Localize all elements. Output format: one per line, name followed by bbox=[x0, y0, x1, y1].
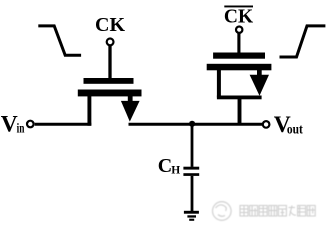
svg-text:out: out bbox=[287, 122, 303, 137]
transistor M2 (dummy switch) gate bar bbox=[213, 53, 265, 59]
terminal circle Vin bbox=[27, 121, 34, 128]
wire: M1 source leg bbox=[87, 96, 91, 126]
wire: M2 left leg bbox=[217, 70, 221, 98]
terminal circle Vout bbox=[263, 121, 270, 128]
watermark logo bbox=[213, 202, 232, 221]
svg-text:C: C bbox=[158, 155, 172, 177]
wire: output line (M1 drain to Vout) bbox=[129, 123, 263, 126]
terminal circle on CK-bar gate bbox=[236, 27, 242, 33]
wire: M2 tail to output node bbox=[238, 99, 242, 125]
watermark text (faint) bbox=[240, 206, 315, 217]
wire: gate lead M2 bbox=[237, 33, 240, 53]
falling clock waveform (left) bbox=[38, 26, 81, 55]
svg-text:in: in bbox=[17, 122, 25, 137]
transistor M2 channel bar bbox=[207, 64, 272, 71]
svg-text:CK: CK bbox=[95, 14, 125, 36]
transistor M1 drain arrow bbox=[121, 96, 140, 122]
terminal circle on CK gate bbox=[107, 39, 114, 46]
capacitor CH bottom plate bbox=[183, 173, 199, 176]
node junction dot bbox=[189, 121, 195, 127]
ground symbol bbox=[184, 211, 199, 221]
wire: gate lead M1 bbox=[108, 45, 111, 78]
wire: capacitor to ground bbox=[191, 176, 194, 211]
wire: M2 shorting bar (source-drain tied) bbox=[217, 96, 262, 100]
wire: Vin to M1 source bbox=[35, 123, 92, 126]
overline of CK-bar bbox=[224, 6, 253, 8]
transistor M1 gate bar bbox=[84, 78, 134, 84]
capacitor CH top plate bbox=[183, 167, 199, 170]
svg-text:H: H bbox=[171, 164, 180, 176]
transistor M2 arrow (right leg) bbox=[250, 70, 269, 96]
transistor M1 channel bar bbox=[78, 90, 142, 97]
wire: node to capacitor bbox=[191, 124, 194, 167]
svg-text:V: V bbox=[1, 112, 18, 138]
rising clock waveform (right) bbox=[280, 26, 326, 57]
svg-text:CK: CK bbox=[224, 7, 254, 28]
